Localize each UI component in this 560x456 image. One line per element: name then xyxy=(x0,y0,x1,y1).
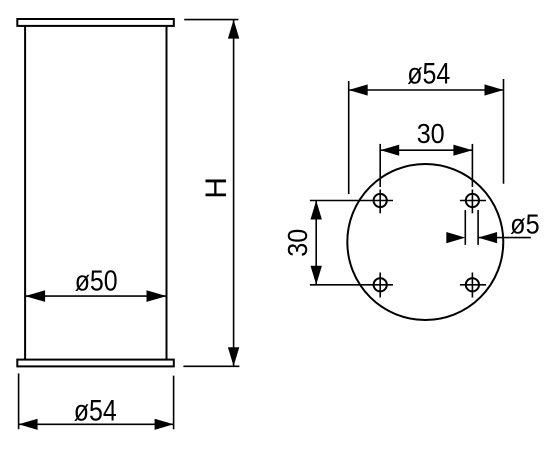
dimension ø50: label text xyxy=(75,265,118,297)
svg-text:H: H xyxy=(200,177,233,199)
dimension H: bottom extension line xyxy=(183,365,239,367)
svg-text:ø50: ø50 xyxy=(75,265,118,297)
dimension ø54 top: label text xyxy=(407,58,450,91)
dimension ø5: right arrow pointing left with leader line xyxy=(478,232,531,243)
top view: hole upper-left vertical centerline xyxy=(379,190,381,214)
dimension H: label text rotated xyxy=(200,177,233,199)
dimension H: vertical dim line with arrows xyxy=(228,20,239,367)
dimension ø54 top: left extension line xyxy=(348,81,350,194)
dimension ø54 bottom: label text xyxy=(74,395,117,428)
svg-text:ø5: ø5 xyxy=(510,208,540,239)
dimension ø50: dim line with arrows xyxy=(25,290,166,302)
dimension ø54 bottom: right extension line xyxy=(173,376,175,430)
svg-text:30: 30 xyxy=(417,118,445,149)
dimension ø54 top: dim line with arrows xyxy=(349,84,504,95)
dimension ø5: right tangent extension line xyxy=(477,210,479,245)
top view: hole upper-right horizontal centerline xyxy=(460,200,486,202)
dimension 30 horizontal: right extension line xyxy=(471,144,473,187)
top view: hole lower-left vertical centerline xyxy=(379,273,381,298)
front view: bottom plate xyxy=(17,360,174,367)
top view: hole lower-right horizontal centerline xyxy=(460,284,486,286)
dimension 30 horizontal: label text xyxy=(417,118,445,149)
dimension ø5: label text xyxy=(510,208,540,239)
svg-text:ø54: ø54 xyxy=(407,58,450,91)
top view: hole lower-right vertical centerline xyxy=(471,273,473,298)
dimension 30 vertical: bottom extension line xyxy=(310,284,393,286)
front view: tube right wall xyxy=(166,26,168,360)
top view: hole upper-right xyxy=(466,194,479,207)
top view: hole upper-left xyxy=(374,194,387,207)
top view: hole upper-right vertical centerline xyxy=(471,190,473,214)
dimension 30 vertical: top extension line xyxy=(310,200,393,202)
dimension 30 horizontal: dim line with arrows xyxy=(380,145,472,156)
svg-text:ø54: ø54 xyxy=(74,395,117,428)
dimension ø54 bottom: dim line with arrows xyxy=(19,419,174,430)
svg-text:30: 30 xyxy=(282,229,313,257)
dimension ø54 bottom: left extension line xyxy=(18,374,20,430)
dimension ø5: left arrow pointing right xyxy=(446,232,465,243)
dimension ø5: left tangent extension line xyxy=(464,210,466,245)
top view: hole lower-right xyxy=(466,278,479,291)
dimension 30 vertical: dim line with arrows xyxy=(311,201,322,285)
front view: top plate xyxy=(17,19,174,26)
top view: plate circle xyxy=(347,164,503,320)
dimension 30 horizontal: left extension line xyxy=(379,144,381,187)
front view: tube left wall xyxy=(24,26,26,360)
dimension H: top extension line xyxy=(184,19,238,21)
dimension ø54 top: right extension line xyxy=(503,79,505,184)
dimension 30 vertical: label text rotated xyxy=(282,229,313,257)
top view: hole lower-left xyxy=(374,278,387,291)
